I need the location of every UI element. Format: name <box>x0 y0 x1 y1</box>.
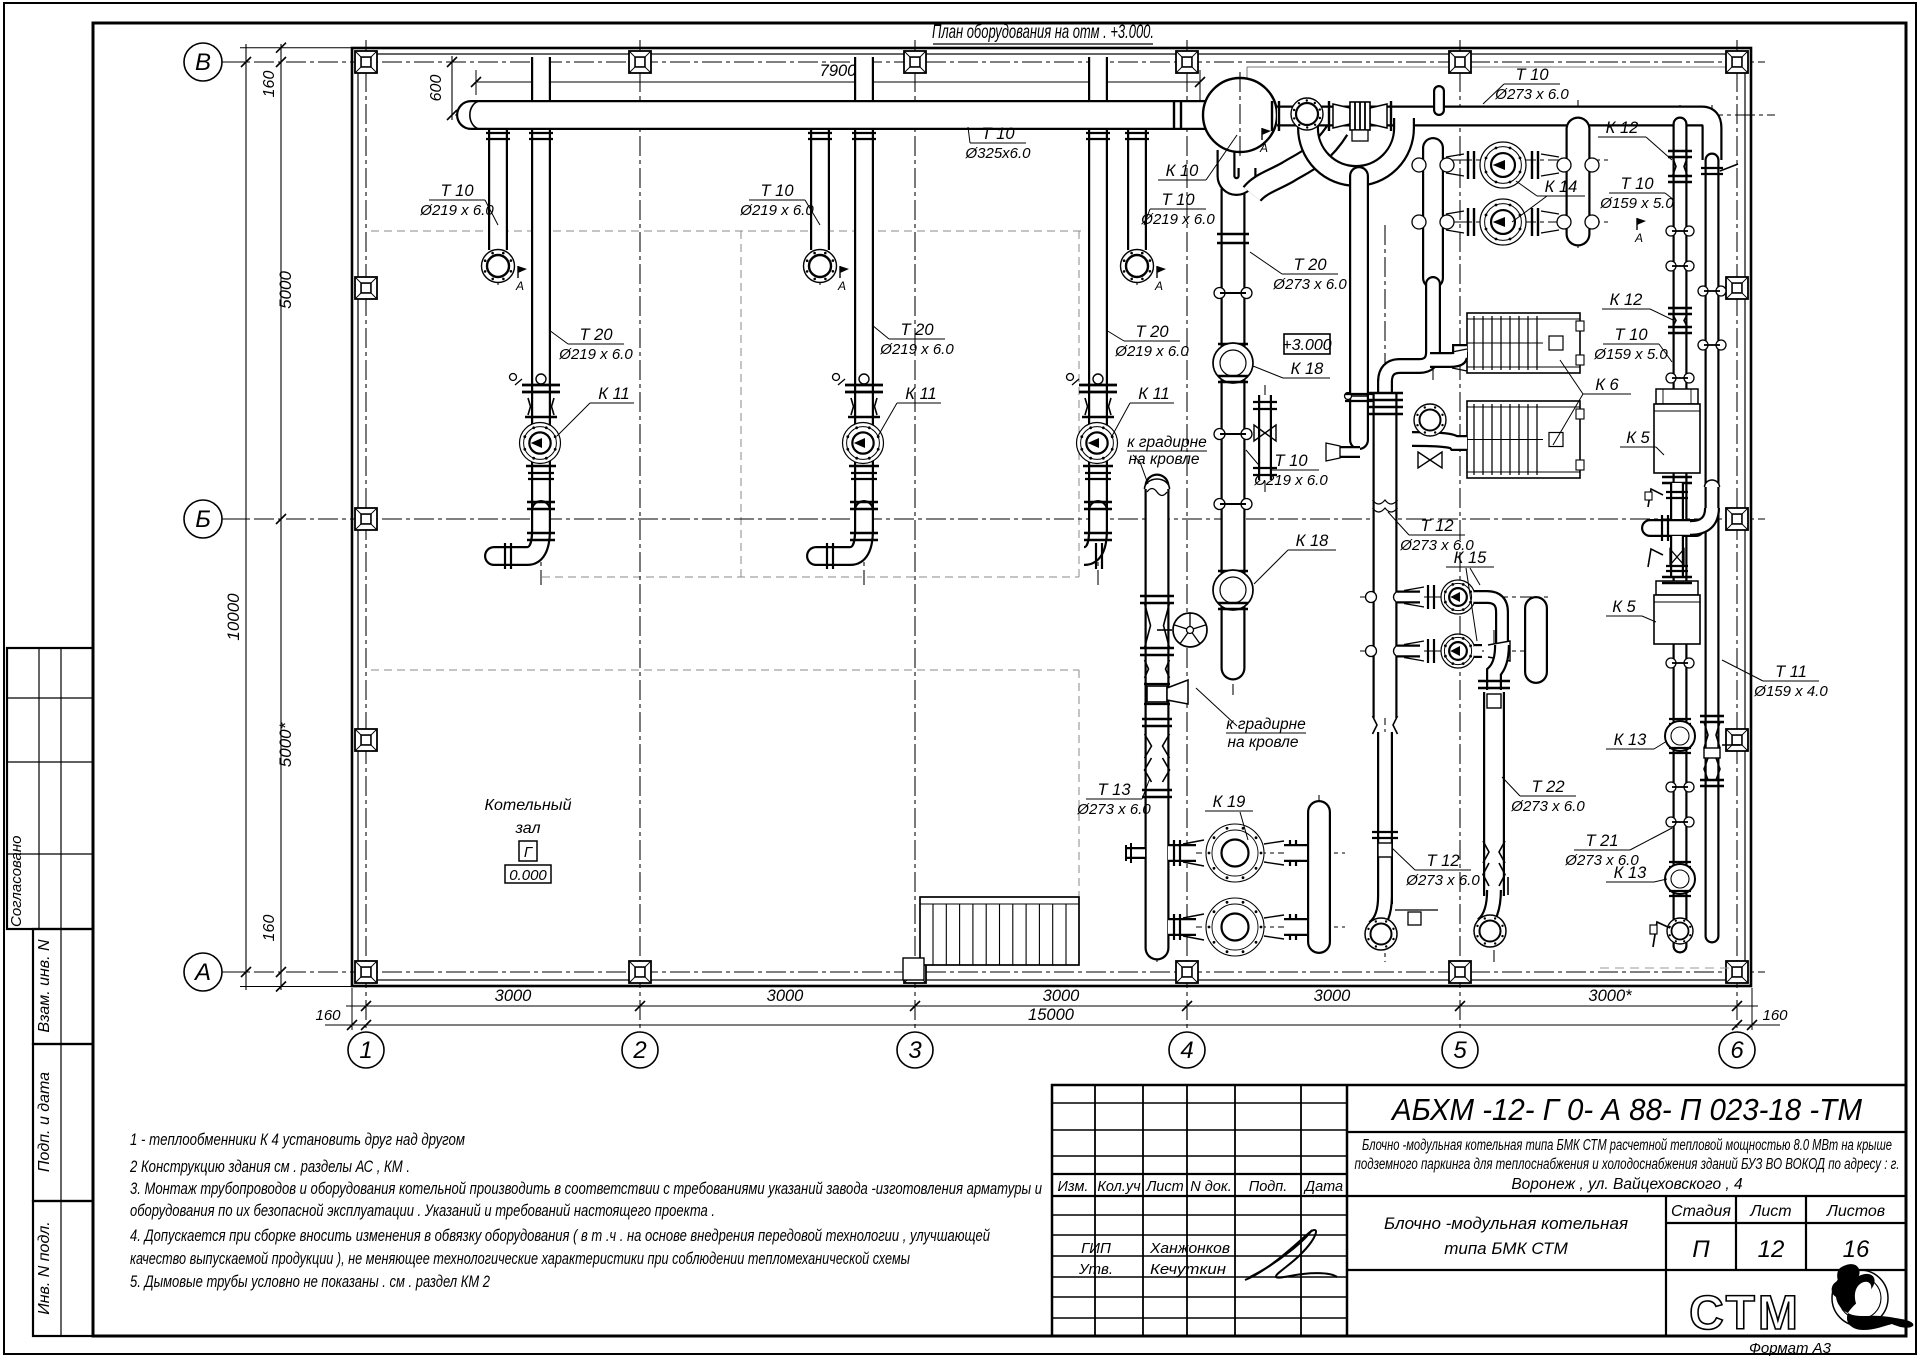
K10 vessel <box>1203 78 1277 152</box>
T13 reducer cone <box>1145 660 1170 678</box>
pump K11 bay2 <box>843 423 884 464</box>
axis centrelines <box>222 40 1765 1032</box>
svg-text:качество выпускаемой продукции: качество выпускаемой продукции ), не мен… <box>130 1249 910 1268</box>
svg-text:3: 3 <box>908 1037 922 1064</box>
svg-text:600: 600 <box>428 75 445 102</box>
svg-text:Взам. инв. N: Взам. инв. N <box>36 939 53 1033</box>
svg-text:Ø273 х 6.0: Ø273 х 6.0 <box>1494 86 1569 103</box>
pump K11 bay1 <box>520 423 561 464</box>
svg-text:Т 10: Т 10 <box>1161 191 1195 209</box>
pipe T20 elbow bay2 <box>816 510 864 556</box>
svg-text:Ø219 х 6.0: Ø219 х 6.0 <box>558 346 633 363</box>
thin platform outline top right <box>1247 66 1742 68</box>
pipe T10 bay3 <box>1127 122 1147 250</box>
pump K11 bay3 <box>1077 423 1118 464</box>
svg-text:К 6: К 6 <box>1595 376 1619 394</box>
header stub <box>1650 519 1696 537</box>
svg-text:Т 10: Т 10 <box>1620 175 1654 193</box>
svg-text:А: А <box>1634 231 1643 245</box>
svg-text:АБХМ -12- Г 0- А 88- П 023-18: АБХМ -12- Г 0- А 88- П 023-18 -ТМ <box>1390 1092 1862 1127</box>
T12 reducer <box>1373 716 1398 734</box>
svg-text:к градирне: к градирне <box>1226 716 1306 733</box>
valve lever on right riser top <box>1701 167 1723 169</box>
svg-text:Т 10: Т 10 <box>1274 452 1308 470</box>
svg-text:Т 20: Т 20 <box>900 321 934 339</box>
svg-text:Ø273 х 6.0: Ø273 х 6.0 <box>1510 798 1585 815</box>
svg-text:К 11: К 11 <box>905 385 936 403</box>
T13 break symbol top <box>1145 479 1170 489</box>
svg-text:Дата: Дата <box>1303 1179 1343 1195</box>
K12 valve 1 <box>1668 150 1692 152</box>
+3.000 level mark <box>1284 334 1330 354</box>
bulges right riser <box>1698 286 1708 296</box>
K13 ball joints <box>1669 718 1691 720</box>
svg-text:Подп.: Подп. <box>1249 1179 1288 1195</box>
svg-text:Т 13: Т 13 <box>1097 781 1131 799</box>
svg-text:Ø159 х 5.0: Ø159 х 5.0 <box>1599 195 1674 212</box>
svg-text:К 11: К 11 <box>598 385 629 403</box>
svg-text:Утв.: Утв. <box>1078 1261 1113 1278</box>
K5 box 1 <box>1656 389 1698 404</box>
elbow to T11 riser <box>1690 508 1712 528</box>
header left cap edge <box>470 101 481 129</box>
svg-text:Блочно -модульная котельная: Блочно -модульная котельная <box>1384 1214 1628 1233</box>
svg-text:5: 5 <box>1453 1037 1467 1064</box>
svg-text:СТМ: СТМ <box>1689 1287 1801 1340</box>
pipe T20 d273 vertical <box>1221 190 1246 668</box>
K12 valve 2 <box>1668 307 1692 309</box>
pipe T21 left riser <box>1673 124 1688 946</box>
bulge fittings on left riser <box>1666 226 1676 236</box>
K18 ball joints <box>1218 343 1248 345</box>
svg-text:1 - теплообменники К 4 устано: 1 - теплообменники К 4 установить друг н… <box>130 1130 465 1149</box>
fitting cluster between K5 boxes (row B) <box>1662 476 1692 479</box>
svg-text:15000: 15000 <box>1028 1006 1075 1024</box>
side tap left on T13 <box>1126 847 1145 859</box>
pipe T12 d273 <box>1373 392 1398 718</box>
svg-text:К 10: К 10 <box>1166 162 1199 180</box>
K15 to T22 <box>1494 645 1502 690</box>
svg-text:12: 12 <box>1758 1236 1785 1263</box>
pump K15 lower <box>1441 634 1475 668</box>
svg-text:Т 12: Т 12 <box>1426 852 1459 870</box>
feed to K6 upper <box>1430 352 1467 360</box>
svg-text:А: А <box>837 279 846 293</box>
svg-text:А: А <box>515 279 524 293</box>
top dimensions 7900 and 600 <box>476 81 1200 83</box>
svg-text:Кол.уч: Кол.уч <box>1097 1179 1141 1195</box>
stairs <box>920 897 1079 965</box>
pipe T20 elbow bay3 <box>1084 510 1098 556</box>
svg-text:Ø273 х 6.0: Ø273 х 6.0 <box>1272 276 1347 293</box>
svg-text:N док.: N док. <box>1190 1179 1231 1195</box>
header flange before K10 <box>1173 100 1175 130</box>
T22 bottom elbow flange <box>1482 890 1494 925</box>
svg-text:К 13: К 13 <box>1614 864 1647 882</box>
T12 break symbol <box>1373 500 1398 512</box>
svg-text:на кровле: на кровле <box>1129 451 1200 468</box>
svg-text:160: 160 <box>261 71 278 98</box>
stub pipe K15 <box>1524 608 1548 672</box>
U-bend <box>1226 150 1247 187</box>
pipe T20 bay1 <box>531 57 551 520</box>
bay 2 fittings <box>808 132 832 134</box>
pipe T10 bay1 <box>488 122 508 250</box>
stub pipe <box>1307 812 1331 942</box>
T13 branch cross to cooling tower <box>1144 683 1170 685</box>
svg-text:К 18: К 18 <box>1291 360 1324 378</box>
drop pipe <box>1258 395 1272 480</box>
left dimension lines <box>245 44 247 990</box>
svg-text:160: 160 <box>315 1007 341 1024</box>
dashed equipment footprint outlines <box>371 231 1085 963</box>
svg-text:Т 10: Т 10 <box>760 182 794 200</box>
pumps K19 <box>1206 824 1264 882</box>
valve below flange ring <box>1418 452 1442 468</box>
svg-text:Т 10: Т 10 <box>440 182 474 200</box>
svg-text:К 5: К 5 <box>1612 598 1636 616</box>
svg-text:160: 160 <box>1762 1007 1788 1024</box>
svg-text:5. Дымовые трубы условно не п: 5. Дымовые трубы условно не показаны . с… <box>130 1272 490 1291</box>
svg-text:Ø219 х 6.0: Ø219 х 6.0 <box>739 202 814 219</box>
T12 bottom elbow flange <box>1373 896 1385 928</box>
pipe to T12 <box>1385 284 1433 400</box>
svg-text:К 14: К 14 <box>1545 178 1578 196</box>
signature <box>1245 1230 1337 1280</box>
K15 upper discharge elbow <box>1474 597 1502 647</box>
svg-text:10000: 10000 <box>224 593 243 641</box>
left pointing cone w flag near +3.000 <box>1340 446 1360 458</box>
pipe centerlines <box>540 58 542 585</box>
svg-text:Ø273 х 6.0: Ø273 х 6.0 <box>1076 801 1151 818</box>
big vertical valve on right riser <box>1700 715 1724 717</box>
svg-text:Ø219 х 6.0: Ø219 х 6.0 <box>1114 343 1189 360</box>
pump K14 <box>1480 142 1526 188</box>
svg-text:Ханжонков: Ханжонков <box>1149 1240 1230 1257</box>
svg-text:А: А <box>1154 279 1163 293</box>
svg-text:Блочно -модульная котельная ти: Блочно -модульная котельная типа БМК СТМ… <box>1362 1137 1892 1154</box>
stub <box>1433 91 1445 110</box>
svg-text:1: 1 <box>359 1037 372 1064</box>
svg-text:К 19: К 19 <box>1213 793 1246 811</box>
svg-text:4. Допускается при сборке вно: 4. Допускается при сборке вносить измене… <box>130 1226 990 1245</box>
T13 venturi <box>1145 734 1170 758</box>
svg-text:К 18: К 18 <box>1296 532 1329 550</box>
svg-text:Ø159 х 5.0: Ø159 х 5.0 <box>1593 346 1668 363</box>
pipe T20 bay3 <box>1088 57 1108 520</box>
svg-text:Т 22: Т 22 <box>1531 778 1564 796</box>
svg-text:типа БМК СТМ: типа БМК СТМ <box>1444 1239 1568 1258</box>
svg-text:3000: 3000 <box>1043 987 1081 1005</box>
svg-text:В: В <box>195 49 211 76</box>
feed to K6 lower <box>1412 439 1467 443</box>
svg-text:Т 11: Т 11 <box>1775 663 1807 681</box>
svg-text:Стадия: Стадия <box>1671 1203 1731 1220</box>
building walls <box>352 48 1751 986</box>
svg-text:3000: 3000 <box>495 987 533 1005</box>
pipe T10 bay2 <box>810 122 830 250</box>
T12 vertical pipe details <box>1367 392 1403 395</box>
svg-text:3. Монтаж трубопроводов и обо: 3. Монтаж трубопроводов и оборудования к… <box>130 1179 1042 1198</box>
svg-text:ГИП: ГИП <box>1081 1240 1111 1257</box>
svg-text:Кечуткин: Кечуткин <box>1150 1261 1226 1278</box>
svg-text:Т 12: Т 12 <box>1420 517 1453 535</box>
T13 gate valve with handwheel <box>1140 595 1174 598</box>
svg-text:А: А <box>1259 141 1268 155</box>
discharge header K14 <box>1566 129 1591 234</box>
svg-text:Формат А3: Формат А3 <box>1749 1340 1832 1357</box>
svg-text:к градирне: к градирне <box>1127 434 1207 451</box>
svg-text:Ø325х6.0: Ø325х6.0 <box>964 145 1031 162</box>
pipe T11 right riser <box>1705 160 1720 936</box>
svg-text:0.000: 0.000 <box>509 867 547 884</box>
svg-text:2: 2 <box>632 1037 646 1064</box>
bulges lower left riser <box>1666 658 1676 668</box>
bay 3 fittings <box>1125 132 1149 134</box>
svg-text:Т 10: Т 10 <box>981 125 1015 143</box>
svg-text:Ø219 х 6.0: Ø219 х 6.0 <box>419 202 494 219</box>
svg-text:П: П <box>1692 1236 1710 1263</box>
VpL bottom flange ring + lever <box>1667 918 1693 944</box>
header pipe T10 d325 <box>471 100 1206 130</box>
bottom dimension lines <box>346 1005 1758 1007</box>
gate valve on top run <box>1328 101 1330 131</box>
svg-text:Листов: Листов <box>1826 1203 1885 1220</box>
flange ring joint right of K10 <box>1291 98 1323 130</box>
svg-text:Т 20: Т 20 <box>1293 256 1327 274</box>
svg-text:Т 20: Т 20 <box>579 326 613 344</box>
bay 1 fittings <box>486 132 510 134</box>
svg-text:Ø219 х 6.0: Ø219 х 6.0 <box>1140 211 1215 228</box>
thin block outline bottom right <box>1600 967 1735 969</box>
svg-text:Подп. и дата: Подп. и дата <box>36 1072 53 1172</box>
svg-text:3000: 3000 <box>767 987 805 1005</box>
svg-text:подземного паркинга для теплос: подземного паркинга для теплоснабжения и… <box>1355 1156 1900 1173</box>
wall columns <box>355 51 377 73</box>
svg-text:Т 20: Т 20 <box>1135 323 1169 341</box>
svg-text:Т 10: Т 10 <box>1515 66 1549 84</box>
svg-text:К 11: К 11 <box>1138 385 1169 403</box>
svg-text:5000*: 5000* <box>276 721 295 767</box>
K6 heat exchangers <box>1467 313 1580 373</box>
svg-text:оборудования по их безопасной: оборудования по их безопасной эксплуатац… <box>130 1201 715 1220</box>
pump K14 <box>1480 199 1526 245</box>
svg-text:К 12: К 12 <box>1610 291 1643 309</box>
suction header K14 <box>1422 148 1444 278</box>
svg-text:Лист: Лист <box>1749 1203 1791 1220</box>
U-loop pipe <box>1308 118 1404 176</box>
svg-text:Лист: Лист <box>1145 1179 1183 1195</box>
axis bubbles <box>222 61 246 63</box>
pipe from U-loop <box>1349 176 1369 440</box>
svg-text:План оборудования на отм . +3.: План оборудования на отм . +3.000. <box>932 21 1154 43</box>
title block <box>1052 1085 1906 1336</box>
svg-text:К 5: К 5 <box>1626 429 1650 447</box>
svg-text:Инв. N подл.: Инв. N подл. <box>36 1221 53 1315</box>
svg-text:А: А <box>193 959 211 986</box>
left approval stamp table <box>7 648 93 1336</box>
svg-text:Ø219 х 6.0: Ø219 х 6.0 <box>879 341 954 358</box>
svg-text:Б: Б <box>195 506 211 533</box>
svg-text:6: 6 <box>1730 1037 1744 1064</box>
pump K15 upper <box>1441 580 1475 614</box>
svg-text:Изм.: Изм. <box>1058 1179 1089 1195</box>
svg-text:К 13: К 13 <box>1614 731 1647 749</box>
svg-text:5000: 5000 <box>276 271 295 309</box>
pipe T20 bay2 <box>854 57 874 520</box>
pipe T20 elbow bay1 <box>494 510 541 556</box>
svg-text:Ø159 х 4.0: Ø159 х 4.0 <box>1753 683 1828 700</box>
S-bend pipe <box>1252 129 1338 194</box>
dome break on right riser <box>1705 480 1720 487</box>
svg-text:на кровле: на кровле <box>1228 734 1299 751</box>
svg-text:К 12: К 12 <box>1606 119 1639 137</box>
svg-text:Согласовано: Согласовано <box>8 836 25 928</box>
svg-text:3000*: 3000* <box>1588 987 1632 1005</box>
pipe T10 d273 top run <box>1277 116 1712 160</box>
svg-text:4: 4 <box>1180 1037 1193 1064</box>
pipe T22 d273 <box>1483 692 1505 896</box>
pipe T13 d273 <box>1145 486 1170 948</box>
svg-text:3000: 3000 <box>1314 987 1352 1005</box>
svg-text:2 Конструкцию здания см . раз: 2 Конструкцию здания см . разделы АС , К… <box>129 1157 410 1176</box>
svg-text:К 15: К 15 <box>1454 549 1487 567</box>
K15 pumps <box>1366 592 1377 603</box>
svg-text:Т 10: Т 10 <box>1614 326 1648 344</box>
svg-text:16: 16 <box>1843 1236 1870 1263</box>
svg-text:Т 21: Т 21 <box>1585 832 1618 850</box>
svg-text:Котельный: Котельный <box>485 797 572 814</box>
T13 tees to K19 pumps <box>1168 844 1196 862</box>
svg-text:зал: зал <box>515 820 541 837</box>
svg-text:+3.000: +3.000 <box>1282 337 1331 354</box>
K5 box 2 <box>1656 581 1698 595</box>
svg-text:Ø273 х 6.0: Ø273 х 6.0 <box>1405 872 1480 889</box>
svg-text:Воронеж , ул. Вайцеховского ,: Воронеж , ул. Вайцеховского , 4 <box>1511 1176 1743 1193</box>
svg-text:160: 160 <box>261 915 278 942</box>
svg-text:7900: 7900 <box>820 62 858 80</box>
K14 pumps <box>1412 158 1426 172</box>
